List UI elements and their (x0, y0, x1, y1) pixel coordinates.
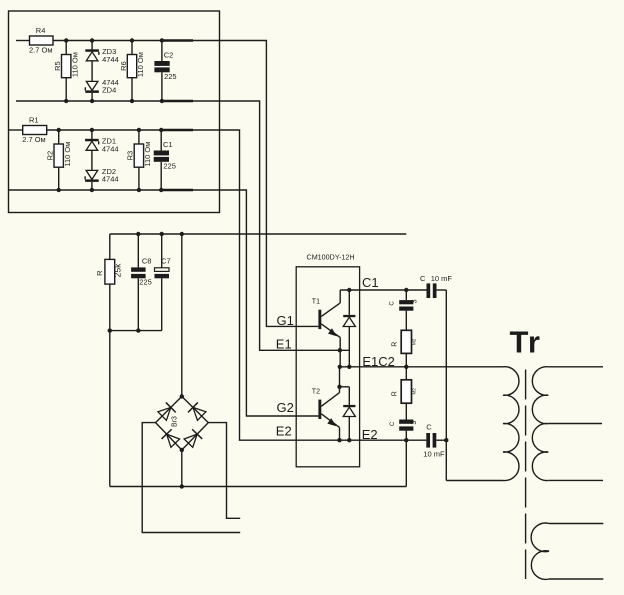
transformer primary winding (503, 367, 519, 481)
svg-text:110 Ом: 110 Ом (70, 52, 79, 77)
svg-text:4744: 4744 (102, 55, 119, 64)
svg-text:25k: 25k (113, 263, 123, 277)
svg-text:Br3: Br3 (172, 416, 179, 427)
wire rail3 to E2 (193, 130, 426, 440)
resistor R4 (29, 26, 53, 54)
zener diode ZD4 (85, 61, 118, 101)
svg-text:E1: E1 (276, 337, 292, 352)
svg-text:E2: E2 (362, 427, 378, 442)
svg-text:R: R (392, 342, 399, 347)
capacitor C7 (polarized) (155, 234, 171, 331)
svg-text:E2: E2 (276, 423, 292, 438)
svg-text:4744: 4744 (102, 144, 119, 153)
svg-text:225: 225 (164, 72, 177, 81)
capacitor C8 225 (131, 234, 152, 331)
junction dots module area (337, 288, 448, 443)
junction dots upper driver (64, 38, 164, 103)
svg-text:ZD4: ZD4 (102, 85, 116, 94)
terminal label E2 left (276, 423, 292, 438)
wire C1 node (340, 289, 426, 291)
wire DC+ top bus (110, 233, 407, 235)
resistor R3 (126, 130, 152, 190)
svg-text:R: R (392, 391, 399, 396)
svg-text:C7: C7 (161, 256, 171, 265)
capacitor C1 225 (154, 130, 176, 190)
svg-text:110 Ом: 110 Ом (63, 142, 72, 167)
wire bridge top riser (181, 234, 183, 396)
freewheel diode D2 (340, 387, 356, 440)
bridge diode bottom-left (162, 429, 180, 447)
svg-text:C: C (426, 423, 432, 432)
resistor R2 (46, 130, 72, 190)
terminal label E1 (276, 337, 292, 352)
svg-text:C1: C1 (163, 140, 173, 149)
wire lower driver bottom rail (9, 189, 162, 191)
svg-text:M2: M2 (412, 388, 417, 395)
svg-text:2.7 Ом: 2.7 Ом (29, 45, 53, 54)
wire lower driver top rail thick segment (162, 129, 193, 132)
snubber capacitor lower (value 3) (390, 403, 418, 440)
svg-text:C8: C8 (142, 256, 152, 265)
node label C1 (362, 275, 379, 290)
wire upper driver bottom rail thick segment (162, 100, 193, 103)
terminal label G1 (277, 313, 294, 328)
svg-text:T1: T1 (312, 299, 320, 306)
resistor R5 (53, 41, 79, 102)
zener diode ZD3 (85, 41, 118, 64)
wire bridge bottom to DC- bus (180, 450, 184, 489)
wire DC- bottom bus (110, 486, 407, 488)
bridge diode top-right (188, 402, 206, 420)
wire bottom of R/C8/C7 (110, 330, 162, 332)
wire primary bottom return (446, 480, 503, 482)
wire upper driver top rail thick segment (162, 39, 193, 42)
wire capacitor midpoint vertical (445, 290, 447, 481)
wire AC input 2 (bridge right) (208, 423, 240, 519)
svg-text:10 mF: 10 mF (423, 450, 445, 459)
svg-text:T2: T2 (312, 389, 320, 396)
capacitor C 10 mF lower (423, 423, 446, 459)
wire upper driver bottom rail (16, 100, 162, 102)
resistor R6 (119, 41, 145, 102)
svg-text:R6: R6 (119, 61, 128, 71)
bridge rectifier Br3 diamond (156, 396, 209, 450)
capacitor C 10 mF upper (420, 274, 452, 298)
wire AC input 1 (bridge left) (142, 423, 240, 533)
svg-text:R2: R2 (46, 151, 55, 161)
IGBT module CM100DY-12H box (296, 253, 359, 467)
svg-text:C: C (420, 274, 426, 283)
wire lower driver bottom rail thick segment (162, 189, 193, 192)
svg-text:10 mF: 10 mF (431, 274, 453, 283)
svg-text:C2: C2 (164, 51, 174, 60)
resistor R1 (22, 116, 47, 144)
transformer secondary winding lower (531, 523, 603, 579)
svg-text:R1: R1 (29, 116, 39, 125)
snubber resistor lower R (392, 367, 417, 403)
wire lower driver top rail (9, 129, 162, 131)
bridge diode bottom-right (184, 429, 202, 447)
wire rail1 to G1 (193, 41, 318, 327)
svg-text:3: 3 (412, 299, 419, 303)
wire rail4 to G2 (193, 190, 318, 416)
junction dots lower driver (57, 128, 164, 192)
svg-text:R3: R3 (126, 151, 135, 161)
svg-text:G2: G2 (277, 400, 294, 415)
transistor T2 (IGBT) (312, 367, 340, 440)
label Tr (510, 325, 542, 360)
wire E1C2 node to transformer (340, 366, 504, 368)
transformer secondary winding upper (532, 367, 603, 481)
zener diode ZD2 (85, 150, 118, 190)
svg-text:M2: M2 (412, 338, 417, 345)
bridge diode top-left (158, 402, 176, 420)
svg-text:G1: G1 (277, 313, 294, 328)
node label E2 right (362, 427, 378, 442)
snubber resistor upper R (392, 330, 417, 367)
svg-text:Tr: Tr (510, 325, 542, 360)
snubber capacitor upper (value 3) (390, 290, 419, 330)
svg-text:110 Ом: 110 Ом (136, 52, 145, 77)
node label E1C2 (362, 354, 395, 369)
svg-text:R: R (95, 270, 104, 276)
wire rail2 to E1 (193, 101, 349, 350)
svg-text:R4: R4 (36, 26, 46, 35)
wire upper driver top rail (16, 40, 162, 42)
svg-text:C: C (390, 301, 396, 306)
svg-text:CM100DY-12H: CM100DY-12H (307, 253, 355, 262)
transformer core (525, 370, 527, 580)
svg-text:C: C (390, 421, 396, 426)
freewheel diode D1 (343, 290, 355, 367)
svg-text:C1: C1 (362, 275, 379, 290)
junction dots top bus and RC bottom (108, 232, 184, 333)
transistor T1 (IGBT) (312, 290, 340, 367)
zener diode ZD1 (85, 130, 118, 153)
svg-text:225: 225 (163, 162, 176, 171)
svg-text:4744: 4744 (102, 174, 119, 183)
svg-text:110 Ом: 110 Ом (143, 142, 152, 167)
wire snubber bottom to DC- bus (405, 440, 407, 486)
capacitor C2 225 (154, 41, 176, 102)
enclosure box (driver board outline) (9, 11, 220, 213)
terminal label G2 (277, 400, 294, 415)
svg-text:2.7 Ом: 2.7 Ом (22, 135, 46, 144)
wire DC+ left drop / resistor R 25k (95, 234, 123, 487)
junction dots bridge (180, 394, 184, 452)
svg-text:3: 3 (411, 421, 418, 425)
svg-text:225: 225 (139, 277, 152, 286)
svg-text:R5: R5 (53, 61, 62, 71)
